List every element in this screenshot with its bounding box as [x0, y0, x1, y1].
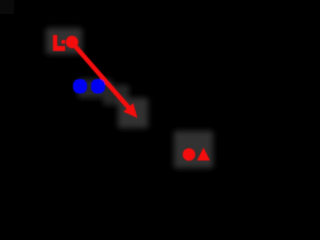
faint corner patch	[0, 0, 14, 14]
red colon lower dot	[62, 46, 66, 51]
red colon upper dot	[62, 40, 66, 44]
red triangle marker	[197, 148, 210, 161]
red circle marker	[183, 148, 196, 161]
artifact halo behind top-left text	[46, 28, 82, 54]
red L glyph	[53, 35, 62, 51]
artifact halo behind blue markers	[78, 79, 112, 98]
artifact halo behind arrowhead	[118, 98, 148, 128]
artifact halo along arrow shaft	[103, 85, 129, 105]
blue marker 2	[91, 79, 105, 94]
red arrow shaft	[75, 46, 130, 109]
artifact halo behind circle and triangle	[174, 131, 213, 168]
blue marker 1	[73, 79, 87, 94]
red disc top	[66, 36, 78, 48]
red arrowhead	[123, 103, 137, 118]
